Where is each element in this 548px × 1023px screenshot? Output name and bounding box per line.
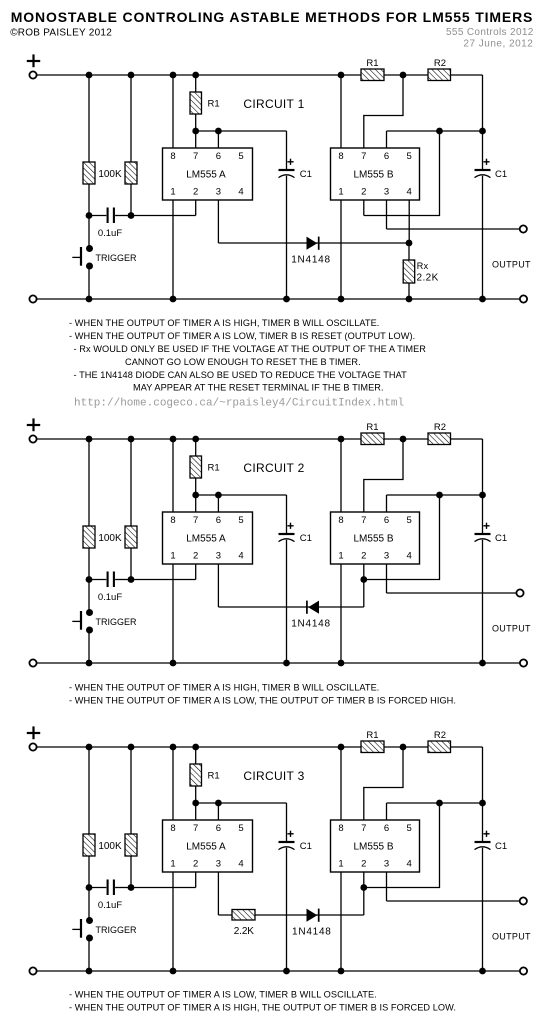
svg-text:- WHEN THE OUTPUT OF TIMER A I: - WHEN THE OUTPUT OF TIMER A IS HIGH, TI… <box>69 682 379 692</box>
svg-text:C1: C1 <box>495 841 507 852</box>
svg-text:3: 3 <box>384 858 389 869</box>
circuit 2: op-amp-style IC box LM555 A <box>163 512 253 564</box>
svg-text:6: 6 <box>216 823 221 834</box>
circuit 3: wire pin 6 A riser <box>217 803 219 820</box>
circuit 3: wire pin 7 B jog from R1-R2 junction <box>364 747 403 820</box>
svg-text:100K: 100K <box>98 533 122 544</box>
svg-text:7: 7 <box>193 515 198 526</box>
svg-text:OUTPUT: OUTPUT <box>492 932 531 942</box>
circuit 2: wire pin 2 B drop <box>363 564 365 580</box>
svg-text:- Rx WOULD ONLY BE USED IF THE: - Rx WOULD ONLY BE USED IF THE VOLTAGE A… <box>74 344 427 354</box>
svg-text:R1: R1 <box>208 771 220 782</box>
circuit 3: wire pin 3 B output drop <box>386 872 388 901</box>
svg-text:R1: R1 <box>208 463 220 474</box>
svg-text:LM555 A: LM555 A <box>186 842 226 853</box>
circuit 1: resistor R1 (timer B) <box>361 69 384 81</box>
svg-text:TRIGGER: TRIGGER <box>96 925 138 935</box>
circuit 3: wire cap right lead <box>115 887 131 889</box>
circuit 2: wire pin 8 A to rail <box>172 439 174 512</box>
circuit 1: wire R1 A column <box>195 75 197 148</box>
svg-text:CIRCUIT 3: CIRCUIT 3 <box>243 769 304 783</box>
circuit 2: node threshold-C1 B <box>479 492 486 499</box>
circuit 2: capacitor C1 (timer A) <box>279 523 295 542</box>
circuit 1: wire 100K no.2 column <box>130 75 132 216</box>
svg-text:1: 1 <box>338 550 343 561</box>
circuit 3: ground terminal left <box>29 967 36 974</box>
svg-text:1: 1 <box>170 186 175 197</box>
circuit 1: node top rail at 100K no.1 <box>86 72 93 79</box>
circuit 3: wire pin 2 A drop <box>195 872 197 888</box>
circuit 3: resistor R1 (timer A) <box>190 764 202 786</box>
circuit 1: node top rail at pin 8 A <box>170 72 177 79</box>
circuit 3: capacitor C1 (timer A) <box>279 831 295 850</box>
svg-text:MAY APPEAR AT THE RESET TERMIN: MAY APPEAR AT THE RESET TERMINAL IF THE … <box>133 382 384 392</box>
circuit 2: node pin 7 A <box>192 492 199 499</box>
circuit 3: +V input terminal <box>29 743 36 750</box>
svg-text:0.1uF: 0.1uF <box>98 900 122 911</box>
svg-text:1: 1 <box>338 186 343 197</box>
circuit 3: wire C1 A top lead <box>286 803 288 842</box>
circuit 1: node ground at pin 1 A <box>170 296 177 303</box>
circuit 1: wire R2 to C1 B drop <box>482 75 484 170</box>
circuit 3: node pin 6 A <box>215 800 222 807</box>
svg-text:©ROB PAISLEY 2012: ©ROB PAISLEY 2012 <box>10 28 112 39</box>
circuit 3: wire C1 B bottom lead <box>482 848 484 971</box>
circuit 3: wire 100K no.1 column upper <box>88 747 90 921</box>
circuit 1: wire pin 7 B jog from R1-R2 junction <box>364 75 403 148</box>
circuit 1: resistor R1 (timer A) <box>190 92 202 114</box>
svg-text:3: 3 <box>216 858 221 869</box>
circuit 3: wire trigger-threshold tie B <box>364 803 440 888</box>
circuit 2: node top rail at 100K no.2 <box>128 436 135 443</box>
svg-text:4: 4 <box>238 550 243 561</box>
circuit 2: wire Vcc top rail <box>37 438 483 440</box>
circuit 3: node threshold-tie B <box>436 800 443 807</box>
svg-text:7: 7 <box>193 151 198 162</box>
circuit 3: wire trigger line to pin 2 A <box>131 887 196 889</box>
circuit 3: node ground at C1 A <box>283 968 290 975</box>
svg-text:8: 8 <box>170 515 175 526</box>
circuit 3: diode 1N4148 (cathode right) <box>307 909 319 922</box>
svg-text:4: 4 <box>407 550 412 561</box>
circuit 1: wire threshold line B <box>387 130 483 132</box>
svg-text:1N4148: 1N4148 <box>291 255 331 266</box>
svg-text:5: 5 <box>238 151 243 162</box>
circuit 2: wire pin 1 B to ground <box>340 564 342 663</box>
svg-text:CIRCUIT 2: CIRCUIT 2 <box>243 461 304 475</box>
svg-text:C1: C1 <box>300 169 312 180</box>
circuit 1: wire pins 7-6 A junction line <box>196 130 287 132</box>
circuit 2: wire diode riser to trigger B <box>363 580 365 608</box>
circuit 2: wire pin 2 A drop <box>195 564 197 580</box>
circuit 2: node top rail at pin 8 B <box>338 436 345 443</box>
circuit 3: node diode-trigger junction <box>360 884 367 891</box>
circuit 2: ground terminal left <box>29 659 36 666</box>
circuit 1: node cap-switch junction <box>86 212 93 219</box>
circuit 1: node top rail at pin 8 B <box>338 72 345 79</box>
circuit 2: wire cap right lead <box>115 579 131 581</box>
circuit 3: OUTPUT terminal <box>520 897 527 904</box>
circuit 2: wire C1 B bottom lead <box>482 540 484 663</box>
circuit 1: wire pin 6 B riser <box>386 131 388 148</box>
circuit 1: node top rail at R1 A <box>192 72 199 79</box>
circuit 1: wire C1 A bottom lead <box>286 176 288 299</box>
circuit 3: wire pin 6 B riser <box>386 803 388 820</box>
circuit 3: wire output line to terminal <box>387 900 520 902</box>
circuit 1: resistor 100K no.1 <box>83 162 95 184</box>
circuit 2: wire pin 8 B to rail <box>340 439 342 512</box>
circuit 1: ground rail <box>37 298 520 300</box>
svg-text:- WHEN THE OUTPUT OF TIMER A I: - WHEN THE OUTPUT OF TIMER A IS LOW, TIM… <box>69 331 415 341</box>
circuit 1: wire Vcc top rail <box>37 74 483 76</box>
svg-text:7: 7 <box>361 515 366 526</box>
circuit 2: node threshold-tie B <box>436 492 443 499</box>
circuit 2: wire trigger-threshold tie B <box>364 495 440 580</box>
circuit 1: node cap-trigger-pin2 junction <box>128 212 135 219</box>
svg-text:MONOSTABLE CONTROLING ASTABLE: MONOSTABLE CONTROLING ASTABLE METHODS FO… <box>11 9 533 25</box>
circuit 2: node top rail at 100K no.1 <box>86 436 93 443</box>
svg-text:27 June, 2012: 27 June, 2012 <box>463 39 533 50</box>
circuit 1: ground terminal right <box>520 295 527 302</box>
circuit 2: wire R1 A column <box>195 439 197 512</box>
circuit 3: node pin 7 A <box>192 800 199 807</box>
svg-text:8: 8 <box>338 823 343 834</box>
circuit 3: wire pin 3 A output drop <box>217 872 219 915</box>
circuit 3: ground terminal right <box>520 967 527 974</box>
svg-text:4: 4 <box>407 186 412 197</box>
circuit 1: node pin 7 A <box>192 128 199 135</box>
svg-text:R1: R1 <box>208 99 220 110</box>
circuit 1: wire Rx column to ground <box>408 243 410 299</box>
circuit 3: resistor R1 (timer B) <box>361 741 384 753</box>
circuit 1: wire trigger line to pin 2 A <box>131 215 196 217</box>
circuit 3: wire pin 1 A to ground <box>172 872 174 971</box>
svg-text:TRIGGER: TRIGGER <box>96 617 138 627</box>
svg-text:2.2K: 2.2K <box>234 926 255 937</box>
circuit 2: resistor R1 (timer B) <box>361 433 384 445</box>
circuit 2: resistor 100K no.2 <box>125 526 137 548</box>
svg-text:5: 5 <box>238 823 243 834</box>
circuit 3: resistor 2.2K series <box>232 910 255 921</box>
svg-text:2: 2 <box>361 858 366 869</box>
circuit 3: wire pins 7-6 A junction line <box>196 802 287 804</box>
circuit 2: pushbutton TRIGGER switch <box>72 609 93 634</box>
circuit 3: wire threshold line B <box>387 802 483 804</box>
svg-text:R1: R1 <box>366 58 378 69</box>
circuit 1: ground terminal left <box>29 295 36 302</box>
circuit 1: wire pin 8 B to rail <box>340 75 342 148</box>
circuit 2: node R1-R2 junction B <box>400 436 407 443</box>
circuit 1: capacitor C1 (timer B) <box>475 159 491 178</box>
circuit 3: resistor R2 (timer B) <box>428 741 451 753</box>
circuit 2: wire threshold line B <box>387 494 483 496</box>
circuit 1: resistor Rx 2.2K <box>403 260 415 283</box>
circuit 3: wire 100K no.2 column <box>130 747 132 888</box>
svg-text:LM555 B: LM555 B <box>353 170 393 181</box>
circuit 3: wire switch to ground <box>88 938 90 971</box>
circuit 1: capacitor 0.1uF <box>108 208 114 224</box>
svg-text:- THE 1N4148 DIODE CAN ALSO BE: - THE 1N4148 DIODE CAN ALSO BE USED TO R… <box>74 370 408 380</box>
circuit 2: node diode-trigger junction <box>360 576 367 583</box>
svg-text:6: 6 <box>216 151 221 162</box>
circuit 2: node pin 6 A <box>215 492 222 499</box>
circuit 2: node ground at trigger <box>86 660 93 667</box>
svg-text:C1: C1 <box>300 533 312 544</box>
circuit 2: wire C1 A top lead <box>286 495 288 534</box>
circuit 2: wire pin 7 B jog from R1-R2 junction <box>364 439 403 512</box>
circuit 1: resistor R2 (timer B) <box>428 69 451 81</box>
circuit 2: node top rail at pin 8 A <box>170 436 177 443</box>
circuit 1: node R1-R2 junction B <box>400 72 407 79</box>
circuit 2: wire R2 to C1 B drop <box>482 439 484 534</box>
circuit 1: wire pin 4 B reset drop <box>408 200 410 243</box>
circuit 3: wire output-A link line <box>218 914 363 916</box>
svg-text:8: 8 <box>170 823 175 834</box>
svg-text:8: 8 <box>338 515 343 526</box>
circuit 3: ground rail <box>37 970 520 972</box>
circuit 1: node ground at pin 1 B <box>338 296 345 303</box>
circuit 1: op-amp-style IC box LM555 B <box>331 148 420 200</box>
svg-text:C1: C1 <box>495 169 507 180</box>
svg-text:0.1uF: 0.1uF <box>98 228 122 239</box>
circuit 3: node top rail at R1 A <box>192 744 199 751</box>
circuit 3: wire R2 to C1 B drop <box>482 747 484 842</box>
circuit 3: capacitor 0.1uF <box>108 880 114 896</box>
circuit 3: node ground at trigger <box>86 968 93 975</box>
circuit 1: wire pin 1 B to ground <box>340 200 342 299</box>
svg-text:LM555 B: LM555 B <box>353 842 393 853</box>
svg-text:8: 8 <box>170 151 175 162</box>
circuit 1: wire pin 3 A output drop <box>217 200 219 243</box>
circuit 2: ground rail <box>37 662 520 664</box>
circuit 1: node top rail at 100K no.2 <box>128 72 135 79</box>
circuit 1: node ground at Rx <box>406 296 413 303</box>
svg-text:6: 6 <box>384 151 389 162</box>
circuit 3: wire pin 2 B drop <box>363 872 365 888</box>
circuit 1: wire pin 2 A drop <box>195 200 197 216</box>
svg-text:1: 1 <box>338 858 343 869</box>
circuit 1: node pin 6 A <box>215 128 222 135</box>
circuit 1: node ground at C1 A <box>283 296 290 303</box>
svg-text:1N4148: 1N4148 <box>291 619 331 630</box>
circuit 1: wire cap left lead <box>89 215 106 217</box>
svg-text:2: 2 <box>361 550 366 561</box>
circuit 1: wire pin 6 A riser <box>217 131 219 148</box>
svg-text:3: 3 <box>384 186 389 197</box>
svg-text:Rx: Rx <box>417 261 429 271</box>
svg-text:6: 6 <box>216 515 221 526</box>
svg-text:R2: R2 <box>434 730 446 741</box>
circuit 1: node threshold-C1 B <box>479 128 486 135</box>
circuit 3: wire C1 A bottom lead <box>286 848 288 971</box>
svg-text:7: 7 <box>193 823 198 834</box>
circuit 2: wire pin 6 B riser <box>386 495 388 512</box>
svg-text:6: 6 <box>384 515 389 526</box>
circuit 3: wire R1 A column <box>195 747 197 820</box>
circuit 2: wire output-A link line <box>218 606 363 608</box>
circuit 3: node top rail at pin 8 B <box>338 744 345 751</box>
svg-text:555 Controls 2012: 555 Controls 2012 <box>446 27 534 38</box>
circuit 3: node cap-trigger-pin2 junction <box>128 884 135 891</box>
svg-text:CANNOT GO LOW ENOUGH TO RESET: CANNOT GO LOW ENOUGH TO RESET THE B TIME… <box>125 357 361 367</box>
circuit 3: node ground at pin 1 B <box>338 968 345 975</box>
svg-text:OUTPUT: OUTPUT <box>492 260 531 270</box>
svg-text:3: 3 <box>216 550 221 561</box>
circuit 1: wire C1 B bottom lead <box>482 176 484 299</box>
circuit 2: diode 1N4148 (cathode left) <box>307 601 319 614</box>
circuit 3: wire diode riser to trigger B <box>363 888 365 916</box>
svg-text:LM555 B: LM555 B <box>353 534 393 545</box>
circuit 2: wire pin 6 A riser <box>217 495 219 512</box>
circuit 3: plus symbol (+V supply marker) <box>27 726 40 739</box>
svg-text:2: 2 <box>361 186 366 197</box>
svg-text:100K: 100K <box>98 841 122 852</box>
svg-text:7: 7 <box>361 151 366 162</box>
svg-text:R1: R1 <box>366 422 378 433</box>
circuit 2: capacitor C1 (timer B) <box>475 523 491 542</box>
circuit 2: wire pin 3 B output drop <box>386 564 388 593</box>
svg-text:4: 4 <box>407 858 412 869</box>
svg-text:1: 1 <box>170 858 175 869</box>
circuit 2: resistor R1 (timer A) <box>190 456 202 478</box>
svg-text:100K: 100K <box>98 169 122 180</box>
circuit 1: node ground at trigger <box>86 296 93 303</box>
circuit 1: node threshold-tie B <box>436 128 443 135</box>
circuit 2: wire output line to terminal <box>387 592 517 594</box>
svg-text:LM555 A: LM555 A <box>186 534 226 545</box>
svg-text:OUTPUT: OUTPUT <box>492 624 531 634</box>
svg-text:- WHEN THE OUTPUT OF TIMER A I: - WHEN THE OUTPUT OF TIMER A IS HIGH, TH… <box>69 1003 456 1013</box>
circuit 1: diode 1N4148 (cathode right) <box>307 237 319 250</box>
circuit 2: node ground at pin 1 B <box>338 660 345 667</box>
circuit 2: wire 100K no.2 column <box>130 439 132 580</box>
circuit 3: node R1-R2 junction B <box>400 744 407 751</box>
circuit 2: wire pin 1 A to ground <box>172 564 174 663</box>
circuit 2: op-amp-style IC box LM555 B <box>331 512 420 564</box>
circuit 1: wire pin 3 B output drop <box>386 200 388 229</box>
circuit 3: node threshold-C1 B <box>479 800 486 807</box>
svg-text:3: 3 <box>216 186 221 197</box>
svg-text:http://home.cogeco.ca/~rpaisle: http://home.cogeco.ca/~rpaisley4/Circuit… <box>74 397 404 409</box>
circuit 1: wire output-A link line <box>218 242 409 244</box>
circuit 2: node ground at C1 A <box>283 660 290 667</box>
circuit 3: resistor 100K no.1 <box>83 834 95 856</box>
circuit 2: wire switch to ground <box>88 630 90 663</box>
circuit 1: node diode-reset-Rx junction <box>406 240 413 247</box>
svg-text:CIRCUIT 1: CIRCUIT 1 <box>243 97 304 111</box>
svg-text:- WHEN THE OUTPUT OF TIMER A I: - WHEN THE OUTPUT OF TIMER A IS LOW, THE… <box>69 695 456 705</box>
svg-text:5: 5 <box>407 151 412 162</box>
circuit 3: node cap-switch junction <box>86 884 93 891</box>
circuit 2: node cap-switch junction <box>86 576 93 583</box>
circuit 1: op-amp-style IC box LM555 A <box>163 148 253 200</box>
circuit 2: wire pin 3 A output drop <box>217 564 219 607</box>
svg-text:TRIGGER: TRIGGER <box>96 253 138 263</box>
circuit 2: wire pins 7-6 A junction line <box>196 494 287 496</box>
svg-text:R2: R2 <box>434 58 446 69</box>
svg-text:C1: C1 <box>300 841 312 852</box>
circuit 3: node top rail at pin 8 A <box>170 744 177 751</box>
circuit 3: op-amp-style IC box LM555 A <box>163 820 253 872</box>
circuit 1: wire pin 2 B drop <box>363 200 365 216</box>
circuit 1: wire pin 1 A to ground <box>172 200 174 299</box>
circuit 1: wire C1 A top lead <box>286 131 288 170</box>
circuit 2: capacitor 0.1uF <box>108 572 114 588</box>
circuit 2: node ground at pin 1 A <box>170 660 177 667</box>
circuit 1: node ground at C1 B <box>479 296 486 303</box>
svg-text:6: 6 <box>384 823 389 834</box>
circuit 3: wire pin 8 A to rail <box>172 747 174 820</box>
svg-text:2: 2 <box>193 550 198 561</box>
svg-text:0.1uF: 0.1uF <box>98 592 122 603</box>
circuit 3: node top rail at 100K no.1 <box>86 744 93 751</box>
circuit 1: pushbutton TRIGGER switch <box>72 245 93 270</box>
circuit 3: op-amp-style IC box LM555 B <box>331 820 420 872</box>
svg-text:R1: R1 <box>366 730 378 741</box>
circuit 2: ground terminal right <box>520 659 527 666</box>
circuit 2: resistor R2 (timer B) <box>428 433 451 445</box>
circuit 2: wire trigger line to pin 2 A <box>131 579 196 581</box>
svg-text:C1: C1 <box>495 533 507 544</box>
circuit 2: +V input terminal <box>29 435 36 442</box>
circuit 2: node top rail at R1 A <box>192 436 199 443</box>
circuit 2: node ground at C1 B <box>479 660 486 667</box>
circuit 1: wire trigger-threshold tie B <box>364 131 440 216</box>
circuit 1: +V input terminal <box>29 71 36 78</box>
circuit 1: resistor 100K no.2 <box>125 162 137 184</box>
circuit 2: OUTPUT terminal <box>516 589 523 596</box>
circuit 2: node cap-trigger-pin2 junction <box>128 576 135 583</box>
circuit 1: wire cap right lead <box>115 215 131 217</box>
svg-text:2.2K: 2.2K <box>417 273 439 284</box>
circuit 3: node ground at pin 1 A <box>170 968 177 975</box>
circuit 2: wire 100K no.1 column upper <box>88 439 90 613</box>
svg-text:2: 2 <box>193 858 198 869</box>
circuit 3: wire pin 8 B to rail <box>340 747 342 820</box>
circuit 1: wire switch to ground <box>88 266 90 299</box>
svg-text:R2: R2 <box>434 422 446 433</box>
svg-text:2: 2 <box>193 186 198 197</box>
circuit 1: capacitor C1 (timer A) <box>279 159 295 178</box>
circuit 2: wire cap left lead <box>89 579 106 581</box>
circuit 1: wire 100K no.1 column upper <box>88 75 90 249</box>
svg-text:LM555 A: LM555 A <box>186 170 226 181</box>
circuit 3: node ground at C1 B <box>479 968 486 975</box>
svg-text:- WHEN THE OUTPUT OF TIMER A I: - WHEN THE OUTPUT OF TIMER A IS LOW, TIM… <box>69 990 377 1000</box>
circuit 3: pushbutton TRIGGER switch <box>72 917 93 942</box>
svg-text:1N4148: 1N4148 <box>292 927 332 938</box>
circuit 3: wire Vcc top rail <box>37 746 483 748</box>
circuit 2: plus symbol (+V supply marker) <box>27 418 40 431</box>
circuit 3: capacitor C1 (timer B) <box>475 831 491 850</box>
svg-text:7: 7 <box>361 823 366 834</box>
svg-text:5: 5 <box>407 823 412 834</box>
svg-text:- WHEN THE OUTPUT OF TIMER A I: - WHEN THE OUTPUT OF TIMER A IS HIGH, TI… <box>69 318 379 328</box>
svg-text:5: 5 <box>407 515 412 526</box>
circuit 3: wire pin 1 B to ground <box>340 872 342 971</box>
circuit 2: resistor 100K no.1 <box>83 526 95 548</box>
circuit 3: wire cap left lead <box>89 887 106 889</box>
circuit 1: wire pin 8 A to rail <box>172 75 174 148</box>
circuit 1: OUTPUT terminal <box>520 225 527 232</box>
circuit 2: wire C1 A bottom lead <box>286 540 288 663</box>
svg-text:1: 1 <box>170 550 175 561</box>
svg-text:5: 5 <box>238 515 243 526</box>
circuit 1: wire output line to terminal <box>387 228 520 230</box>
svg-text:8: 8 <box>338 151 343 162</box>
circuit 1: plus symbol (+V supply marker) <box>27 54 40 67</box>
svg-text:3: 3 <box>384 550 389 561</box>
